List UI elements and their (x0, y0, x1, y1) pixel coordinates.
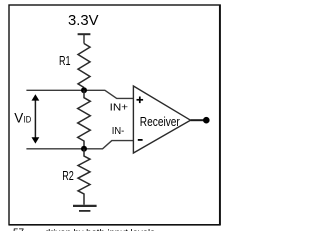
wire R1 to node A (83, 88, 85, 91)
svg-text:Receiver: Receiver (140, 115, 180, 129)
resistor R1 (78, 44, 90, 88)
wire left stub to node B (26, 148, 84, 150)
pin - (inverting input mark) (138, 139, 143, 141)
wire node B to IN- (84, 141, 133, 149)
pin + (non-inverting input mark) (137, 97, 144, 104)
op-amp U1 Receiver (133, 86, 190, 153)
ground (73, 206, 97, 211)
node B junction dot (81, 146, 87, 152)
svg-text:57: 57 (13, 227, 25, 231)
power rail 3.3V bar (78, 33, 91, 35)
resistor R2 (78, 149, 90, 205)
wire left stub to node A (26, 89, 84, 91)
svg-text:driven by both input levels: driven by both input levels (45, 227, 155, 231)
VID arrow (differential voltage) (32, 94, 40, 143)
wire node A to IN+ (84, 90, 133, 98)
node A junction dot (81, 87, 87, 93)
svg-text:IN-: IN- (112, 125, 125, 137)
svg-text:V: V (14, 110, 23, 125)
wire rail to R1 (83, 34, 85, 43)
wire output (191, 119, 204, 121)
border frame (9, 5, 220, 225)
svg-text:R2: R2 (62, 168, 74, 183)
svg-text:IN+: IN+ (110, 102, 128, 114)
label VID (14, 110, 31, 125)
svg-text:3.3V: 3.3V (68, 12, 99, 29)
svg-text:R1: R1 (59, 53, 71, 68)
node OUT terminal dot (203, 117, 210, 124)
svg-text:ID: ID (24, 114, 32, 124)
resistor RM (termination between nodes) (78, 90, 91, 149)
